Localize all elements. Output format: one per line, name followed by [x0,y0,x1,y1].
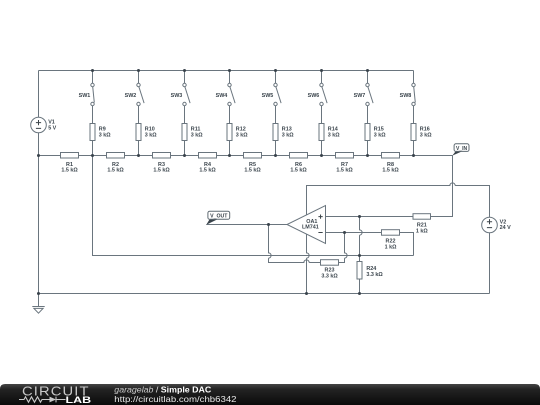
svg-text:SW4: SW4 [216,93,228,99]
svg-text:3 kΩ: 3 kΩ [420,132,432,138]
svg-text:SW8: SW8 [400,93,412,99]
svg-text:3 kΩ: 3 kΩ [145,132,157,138]
svg-text:V_OUT: V_OUT [210,214,228,220]
svg-text:SW1: SW1 [79,93,91,99]
svg-text:1.5 kΩ: 1.5 kΩ [244,168,261,174]
svg-text:1 kΩ: 1 kΩ [416,228,428,234]
svg-text:LM741: LM741 [302,225,319,231]
svg-text:3.3 kΩ: 3.3 kΩ [366,272,383,278]
svg-text:1.5 kΩ: 1.5 kΩ [107,168,124,174]
svg-text:3.3 kΩ: 3.3 kΩ [321,273,338,279]
svg-text:3 kΩ: 3 kΩ [236,132,248,138]
svg-text:3 kΩ: 3 kΩ [191,132,203,138]
svg-text:3 kΩ: 3 kΩ [99,132,111,138]
svg-text:1.5 kΩ: 1.5 kΩ [382,168,399,174]
svg-text:1.5 kΩ: 1.5 kΩ [61,168,78,174]
svg-text:1 kΩ: 1 kΩ [385,244,397,250]
svg-text:3 kΩ: 3 kΩ [374,132,386,138]
svg-text:3 kΩ: 3 kΩ [282,132,294,138]
svg-text:SW5: SW5 [262,93,274,99]
svg-text:5 V: 5 V [48,125,56,131]
svg-text:1.5 kΩ: 1.5 kΩ [290,168,307,174]
svg-text:1.5 kΩ: 1.5 kΩ [336,168,353,174]
svg-text:1.5 kΩ: 1.5 kΩ [153,168,170,174]
svg-text:garagelab / Simple DAC: garagelab / Simple DAC [114,384,211,394]
svg-text:24 V: 24 V [500,225,511,231]
svg-text:SW3: SW3 [171,93,183,99]
svg-text:LAB: LAB [66,395,92,405]
svg-text:3 kΩ: 3 kΩ [328,132,340,138]
svg-text:SW2: SW2 [125,93,137,99]
svg-text:1.5 kΩ: 1.5 kΩ [199,168,216,174]
svg-text:V_IN: V_IN [456,146,468,152]
svg-text:http://circuitlab.com/chb6342: http://circuitlab.com/chb6342 [114,394,237,404]
svg-text:SW7: SW7 [354,93,366,99]
svg-text:SW6: SW6 [308,93,320,99]
